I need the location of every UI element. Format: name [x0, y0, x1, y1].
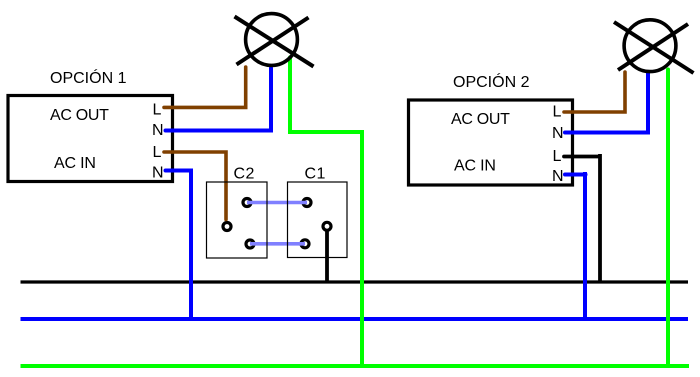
svg-text:L: L: [153, 144, 162, 161]
wire periwinkle C2 to C1 top traveler: [247, 201, 307, 205]
terminal C2 middle-left: [223, 223, 231, 231]
terminal C1 middle-right: [323, 222, 331, 230]
svg-text:AC OUT: AC OUT: [451, 111, 510, 128]
svg-text:C1: C1: [305, 166, 326, 183]
wire brown U2 AC OUT L to lamp E2: [564, 72, 625, 112]
svg-text:N: N: [152, 165, 164, 182]
wire brown U1 AC OUT L to lamp E1: [164, 67, 246, 107]
svg-text:OPCIÓN 1: OPCIÓN 1: [50, 68, 127, 87]
svg-text:AC IN: AC IN: [54, 155, 96, 172]
wire green lamp E1 to green bus: [290, 58, 362, 367]
wire blue U1 AC OUT N to lamp E1: [166, 68, 272, 131]
box U1 OPCIÓN 1 (AC OUT / AC IN): [8, 96, 173, 182]
wire blue U2 AC IN N to blue bus (vertical drop): [583, 172, 587, 318]
wire brown U1 AC IN L to switch C2: [164, 152, 226, 220]
wire black U2 AC IN L to black bus (horizontal): [564, 155, 600, 159]
wire blue U2 AC OUT N to lamp E2: [565, 73, 648, 133]
svg-text:AC IN: AC IN: [454, 158, 496, 175]
svg-text:L: L: [553, 104, 562, 121]
svg-text:N: N: [552, 168, 564, 185]
svg-text:C2: C2: [234, 166, 255, 183]
svg-text:N: N: [552, 125, 564, 142]
lamp E1: [235, 14, 314, 67]
wire blue U1 AC IN N to blue bus: [166, 171, 192, 319]
svg-text:AC OUT: AC OUT: [50, 107, 109, 124]
switch C1 box: [288, 182, 348, 258]
svg-text:N: N: [152, 122, 164, 139]
switch C2 box: [207, 182, 268, 258]
wire green lamp E2 to green bus: [666, 70, 670, 366]
svg-text:OPCIÓN 2: OPCIÓN 2: [453, 72, 530, 91]
terminal C1 bottom-left: [301, 240, 309, 248]
terminal C2 top-right: [243, 199, 251, 207]
wire blue U2 AC IN N to blue bus (horizontal): [565, 173, 586, 177]
lamp E2: [614, 20, 694, 73]
terminal C1 top-left: [303, 199, 311, 207]
blue bus neutral line: [21, 317, 689, 321]
svg-text:L: L: [553, 148, 562, 165]
terminal C2 bottom: [246, 240, 254, 248]
box U2 OPCIÓN 2 (AC OUT / AC IN): [409, 100, 573, 185]
svg-text:L: L: [153, 102, 162, 119]
wire periwinkle C2 to C1 bottom traveler: [250, 242, 305, 246]
black bus line: [21, 280, 689, 283]
wire black C1 common to black bus: [325, 230, 329, 284]
green bus earth line: [21, 364, 690, 368]
wire black U2 AC IN L to black bus (vertical drop): [598, 154, 602, 281]
